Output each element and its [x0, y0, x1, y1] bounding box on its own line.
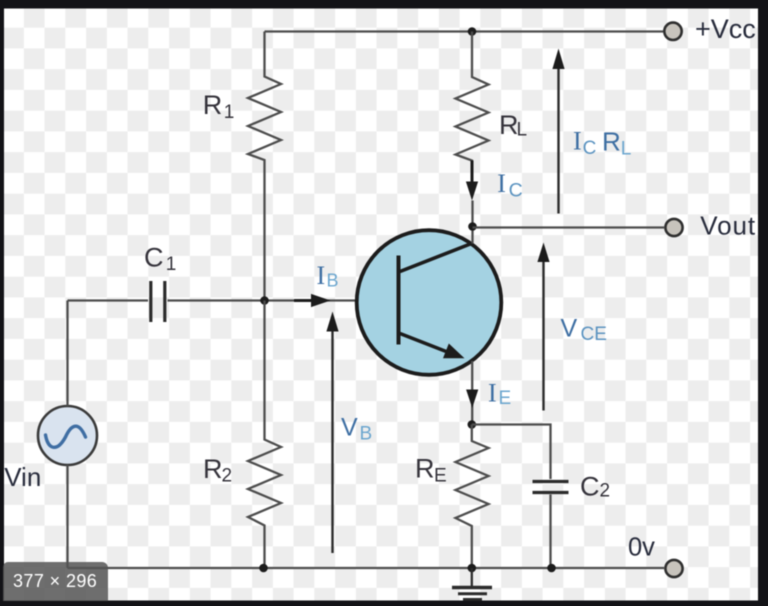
label R1 [203, 90, 235, 123]
svg-text:1: 1 [166, 254, 177, 275]
svg-text:C: C [144, 243, 164, 273]
arrow ICRL (up) [552, 49, 564, 214]
wire collector segment to transistor [471, 201, 473, 244]
svg-text:C: C [583, 138, 597, 159]
svg-text:L: L [621, 139, 632, 160]
svg-text:2: 2 [600, 481, 611, 502]
svg-text:L: L [517, 120, 528, 141]
junction dot emitter node [468, 420, 477, 429]
label IB [317, 261, 339, 291]
svg-text:I: I [497, 169, 506, 198]
wire C2 branch top [472, 425, 551, 480]
transistor Q1 [357, 230, 502, 375]
svg-text:R: R [203, 454, 223, 484]
wire emitter segment [471, 361, 473, 425]
size overlay 377x296 [3, 562, 108, 601]
resistor R1 [248, 32, 281, 301]
resistor RL [456, 32, 489, 179]
source Vin [38, 406, 97, 465]
svg-text:I: I [488, 379, 497, 408]
svg-text:Vout: Vout [700, 211, 756, 241]
svg-text:V: V [561, 315, 578, 343]
arrow IB on base wire [294, 294, 331, 307]
wire Vin bottom [66, 465, 68, 568]
label C1 [144, 243, 176, 276]
label RE [415, 454, 447, 487]
arrow VCE (up) [537, 243, 549, 411]
svg-text:E: E [434, 466, 447, 487]
capacitor C2 [533, 482, 569, 493]
junction dot R2 bottom [259, 564, 268, 573]
label Vout [700, 211, 756, 241]
svg-text:Vin: Vin [4, 462, 41, 492]
label IE [488, 379, 511, 410]
arrow VB (up) [326, 312, 338, 554]
svg-text:V: V [341, 414, 358, 442]
svg-text:0v: 0v [628, 534, 655, 562]
svg-text:B: B [327, 271, 339, 291]
label +Vcc [695, 14, 756, 44]
resistor R2 [248, 301, 281, 569]
capacitor C1 [68, 281, 399, 322]
wire C2 branch bottom [549, 495, 551, 569]
wire Vin top [66, 301, 68, 407]
label VB [341, 414, 372, 445]
label ICRL [573, 127, 631, 160]
ground [452, 568, 492, 599]
arrow IE on emitter wire [466, 390, 478, 409]
label RL [499, 110, 527, 141]
svg-text:E: E [499, 388, 512, 409]
arrow IC on collector wire [466, 161, 478, 201]
label 0v [628, 534, 655, 562]
junction dot top rail / RL [468, 27, 477, 36]
svg-text:+Vcc: +Vcc [695, 14, 756, 44]
label C2 [580, 472, 610, 502]
svg-text:1: 1 [224, 102, 235, 123]
junction dot RE bottom [468, 564, 477, 573]
svg-text:C: C [580, 472, 600, 502]
terminal 0v [665, 560, 682, 577]
svg-text:R: R [203, 90, 223, 120]
wire top rail from R1 to +Vcc terminal [265, 30, 664, 32]
svg-text:R: R [602, 127, 621, 157]
label Vin [4, 462, 41, 492]
svg-text:C: C [509, 180, 523, 202]
terminal Vout [665, 219, 682, 236]
svg-text:CE: CE [581, 324, 607, 345]
svg-text:B: B [360, 424, 373, 445]
svg-text:R: R [415, 454, 435, 484]
wire Vout [473, 226, 665, 228]
svg-text:I: I [317, 261, 326, 290]
junction dot C2 bottom [547, 564, 556, 573]
svg-text:I: I [573, 127, 582, 156]
svg-text:2: 2 [222, 466, 233, 487]
resistor RE [456, 425, 489, 569]
junction dot base node [260, 296, 269, 305]
label VCE [561, 315, 607, 345]
junction dot collector / Vout [468, 222, 477, 231]
wire bottom rail [68, 567, 665, 569]
terminal +Vcc [664, 23, 681, 40]
label R2 [203, 454, 232, 487]
label IC [497, 169, 522, 202]
